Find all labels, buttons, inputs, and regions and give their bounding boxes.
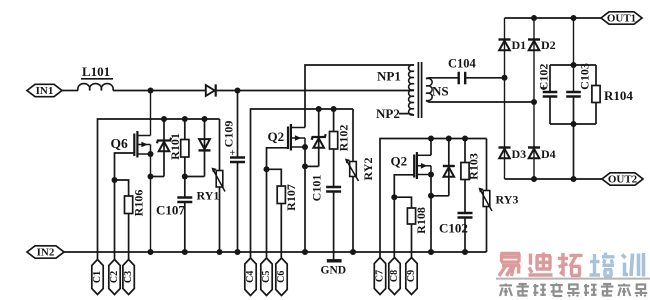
svg-text:NS: NS [432,84,449,99]
svg-text:C103: C103 [577,63,591,90]
svg-text:RY1: RY1 [197,189,220,203]
svg-text:C5: C5 [261,271,272,283]
svg-text:R101: R101 [168,133,182,160]
svg-text:IN2: IN2 [37,247,55,259]
svg-text:IN1: IN1 [36,85,54,97]
svg-text:C9: C9 [406,270,417,282]
svg-text:D2: D2 [541,38,556,52]
svg-text:L101: L101 [82,64,110,79]
svg-text:C109: C109 [222,121,236,148]
svg-text:C6: C6 [276,271,287,283]
svg-text:C2: C2 [109,271,120,283]
svg-text:C101: C101 [309,175,323,202]
svg-text:C7: C7 [374,270,385,282]
svg-text:D4: D4 [541,147,556,161]
svg-text:R102: R102 [336,125,350,152]
svg-text:C8: C8 [389,270,400,282]
svg-text:C104: C104 [448,57,477,71]
svg-text:RY3: RY3 [496,193,519,207]
svg-text:C4: C4 [245,271,256,283]
svg-text:NP2: NP2 [376,106,400,121]
svg-text:RY2: RY2 [361,158,375,181]
svg-text:R106: R106 [131,190,145,217]
svg-text:NP1: NP1 [377,69,401,84]
svg-text:C107: C107 [156,203,185,218]
svg-text:Q2: Q2 [268,129,285,144]
svg-text:C102: C102 [439,221,468,236]
svg-text:OUT1: OUT1 [607,13,636,25]
svg-text:R107: R107 [284,184,298,211]
svg-text:GND: GND [321,265,347,277]
svg-text:C102: C102 [536,64,550,91]
svg-text:OUT2: OUT2 [608,174,638,186]
svg-text:Q6: Q6 [111,136,129,151]
svg-text:R104: R104 [604,88,633,103]
svg-text:R108: R108 [414,207,428,234]
svg-text:D3: D3 [512,147,527,161]
svg-text:C1: C1 [92,271,103,283]
svg-text:Q2: Q2 [391,154,408,169]
svg-text:C3: C3 [123,271,134,283]
svg-text:D1: D1 [512,38,527,52]
svg-text:R103: R103 [466,153,480,180]
svg-text:+: + [230,148,236,159]
